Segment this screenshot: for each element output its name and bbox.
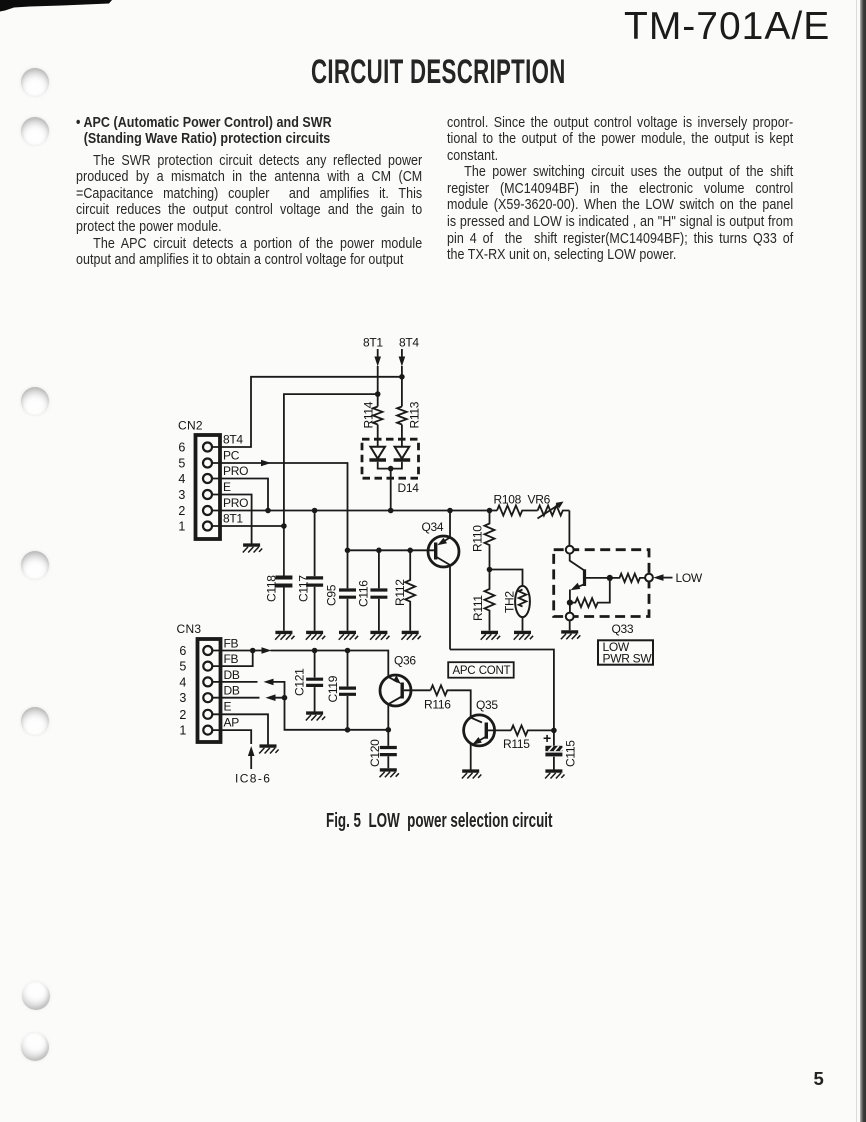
svg-text:R111: R111 <box>471 595 485 621</box>
svg-text:3: 3 <box>178 488 185 502</box>
CN3 pin 4 <box>179 668 240 690</box>
svg-text:APC CONT: APC CONT <box>453 665 511 677</box>
svg-text:FB: FB <box>224 652 239 666</box>
svg-text:5: 5 <box>178 457 185 471</box>
svg-text:Q33: Q33 <box>612 622 634 636</box>
node 8T1 label <box>363 336 383 350</box>
svg-text:PC: PC <box>223 449 240 463</box>
electrolytic capacitor C115 <box>543 730 578 770</box>
capacitor C120 <box>368 730 397 769</box>
svg-text:Q36: Q36 <box>394 654 416 668</box>
ground (R112) <box>401 632 420 639</box>
CN3 pin 3 <box>179 684 240 706</box>
capacitor C95 <box>325 550 357 631</box>
svg-text:R108: R108 <box>494 493 522 507</box>
resistor R115 <box>503 725 554 751</box>
wire: CN2 pin5 PC line <box>212 460 348 551</box>
svg-text:R112: R112 <box>393 579 407 606</box>
right text column <box>447 115 793 264</box>
svg-text:C121: C121 <box>293 668 307 696</box>
wire: R116 to Q35 <box>449 690 470 717</box>
wires R114/R113 to diodes <box>378 425 402 447</box>
svg-text:R113: R113 <box>408 401 422 428</box>
page number <box>814 1068 824 1090</box>
svg-text:PWR SW: PWR SW <box>603 652 653 666</box>
wire: CN2 pin4 to main rail <box>212 479 268 511</box>
LOW input arrow <box>653 571 703 585</box>
svg-text:R115: R115 <box>503 737 530 751</box>
svg-text:C118: C118 <box>265 575 279 602</box>
diode D14 right <box>394 447 411 460</box>
variable resistor VR6 <box>528 493 570 519</box>
ground (Q35) <box>462 771 481 778</box>
diode pair D14 dashed box <box>362 439 419 495</box>
svg-text:CN2: CN2 <box>178 419 203 433</box>
ground (CN3 E) <box>259 746 278 753</box>
svg-text:C115: C115 <box>564 740 578 767</box>
transistor Q34 <box>422 511 460 650</box>
transistor Q35 <box>464 698 511 770</box>
wire: CN2 pin6 to 8T4 rail <box>212 374 405 447</box>
svg-text:D14: D14 <box>398 481 420 495</box>
CN3 pin 5 <box>179 652 238 674</box>
svg-text:C95: C95 <box>325 584 339 606</box>
thermistor TH2 <box>490 570 530 631</box>
wire: Q34 collector to APC junction <box>450 650 557 734</box>
CN2 pin 2 <box>178 496 248 518</box>
CN2 pin 6 <box>178 433 243 455</box>
svg-text:E: E <box>223 480 231 494</box>
resistor R116 <box>424 685 451 711</box>
svg-text:R110: R110 <box>471 525 485 552</box>
capacitor C118 <box>265 526 293 631</box>
CN2 pin 3 <box>178 480 231 502</box>
svg-text:DB: DB <box>224 668 240 682</box>
svg-text:8T1: 8T1 <box>223 512 243 526</box>
wire: CN2 pin1 8T1 net <box>212 391 381 528</box>
Q33 right terminal <box>645 574 653 582</box>
svg-text:+: + <box>543 730 551 746</box>
wire: D14 cathodes to main rail <box>378 462 402 511</box>
CN2 pin 1 <box>178 512 243 534</box>
ground (TH2) <box>514 632 533 639</box>
wire: CN3 pin1 AP <box>212 730 251 744</box>
connector CN3 <box>177 622 221 742</box>
svg-text:LOW: LOW <box>676 571 703 585</box>
svg-text:PRO: PRO <box>223 496 248 510</box>
resistor R112 <box>393 550 415 631</box>
8T4 feed arrow <box>399 349 406 407</box>
svg-text:6: 6 <box>179 644 186 658</box>
svg-text:C116: C116 <box>357 580 371 607</box>
ground (CN2 E) <box>243 545 262 552</box>
Q33 internal resistor (base-emitter) <box>570 580 610 608</box>
resistor R110 <box>471 511 495 573</box>
svg-text:Q34: Q34 <box>422 520 444 534</box>
svg-text:DB: DB <box>224 684 240 698</box>
ground (C120) <box>380 770 399 777</box>
ground (C121) <box>306 713 325 720</box>
Q33 internal transistor <box>567 554 613 613</box>
punch holes <box>21 68 49 96</box>
ground (C95) <box>339 632 358 639</box>
svg-text:IC8-6: IC8-6 <box>235 772 271 786</box>
transistor Q36 <box>380 654 431 730</box>
wire: CN3 pin2 E to ground <box>212 714 268 744</box>
figure caption <box>326 809 552 833</box>
svg-text:4: 4 <box>179 675 186 689</box>
svg-text:CN3: CN3 <box>177 622 202 636</box>
capacitor C117 <box>297 511 324 631</box>
ground (Q33) <box>561 632 580 639</box>
svg-text:1: 1 <box>179 724 186 738</box>
capacitor C116 <box>357 550 388 631</box>
digital transistor Q33 dashed box <box>554 550 649 636</box>
CN2 pin 4 <box>178 464 248 486</box>
CN3 pin 2 <box>179 699 231 722</box>
svg-text:2: 2 <box>179 708 186 722</box>
ground (C115) <box>545 771 564 778</box>
wire: main rail (pin2 PRO) <box>212 508 497 514</box>
label box LOW PWR SW <box>598 640 653 666</box>
svg-text:FB: FB <box>224 637 239 651</box>
IC8-6 arrow <box>235 746 271 786</box>
resistor R114 <box>362 401 383 428</box>
svg-text:C119: C119 <box>326 675 340 702</box>
wire: CN2 pin3 E to ground <box>212 495 252 544</box>
CN2 pin 5 <box>178 449 239 471</box>
svg-text:E: E <box>224 699 232 713</box>
wire: CN3 pin4 DB <box>212 679 284 698</box>
Q33 bottom terminal <box>566 613 574 621</box>
svg-text:6: 6 <box>178 441 185 455</box>
top edge black bar <box>0 0 160 16</box>
svg-text:R116: R116 <box>424 698 451 712</box>
svg-text:R114: R114 <box>362 401 376 428</box>
wire: CN3 pin6 FB line <box>212 647 388 677</box>
resistor R111 <box>471 570 495 631</box>
label box APC CONT <box>448 662 514 678</box>
right page-edge shadow <box>856 0 857 1122</box>
svg-text:AP: AP <box>224 716 240 730</box>
capacitor C119 <box>326 651 356 730</box>
svg-text:5: 5 <box>179 660 186 674</box>
CN3 pin 1 <box>179 716 239 738</box>
resistor R113 <box>397 401 421 428</box>
svg-text:3: 3 <box>179 691 186 705</box>
model title <box>624 5 830 49</box>
8T1 feed arrow <box>374 349 381 407</box>
svg-text:8T4: 8T4 <box>223 433 243 447</box>
svg-text:2: 2 <box>178 504 185 518</box>
wire: Q34 base line <box>345 548 434 554</box>
wire: VR6 down to Q33 <box>568 511 570 546</box>
wire: CN3 pin3 DB <box>212 694 391 732</box>
svg-text:C117: C117 <box>297 575 311 602</box>
svg-text:VR6: VR6 <box>528 493 551 507</box>
svg-text:8T4: 8T4 <box>399 336 419 350</box>
ground (C118) <box>275 632 294 639</box>
page heading <box>311 53 566 92</box>
Q33 top terminal <box>566 546 574 554</box>
svg-text:C120: C120 <box>368 739 382 767</box>
svg-text:TH2: TH2 <box>503 591 517 613</box>
Q33 internal resistor (base) <box>610 574 645 582</box>
CN3 pin 6 <box>179 637 238 659</box>
svg-text:PRO: PRO <box>223 464 248 478</box>
svg-text:4: 4 <box>178 472 185 486</box>
svg-text:8T1: 8T1 <box>363 336 383 350</box>
left text column <box>76 115 422 269</box>
connector CN2 <box>178 419 220 540</box>
ground (C117) <box>306 632 325 639</box>
ground (C116) <box>370 632 389 639</box>
diode D14 left <box>369 447 386 460</box>
node 8T4 label <box>399 336 419 350</box>
svg-text:1: 1 <box>178 520 185 534</box>
ground (R111) <box>481 632 500 639</box>
wire: CN3 pin5 to FB line <box>212 651 252 667</box>
capacitor C121 <box>293 651 324 712</box>
wire: Q33 bottom to ground <box>569 620 571 630</box>
resistor R108 <box>494 493 538 516</box>
svg-text:Q35: Q35 <box>476 698 498 712</box>
